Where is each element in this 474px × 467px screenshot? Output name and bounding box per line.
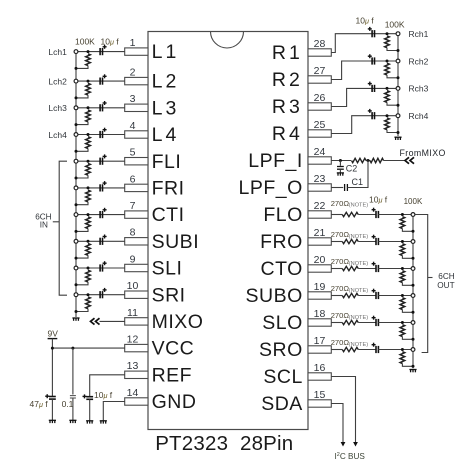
svg-text:C2: C2 — [346, 164, 358, 174]
junction node pin 7 input — [87, 213, 90, 216]
svg-text:L2: L2 — [152, 71, 180, 93]
bracket 6CH IN — [59, 161, 67, 295]
capacitor 10uF (SRO) — [376, 346, 378, 353]
output terminal Rch4 — [396, 114, 400, 118]
svg-text:Rch2: Rch2 — [409, 56, 429, 66]
pin 17 (SRO) — [308, 346, 331, 353]
svg-text:270Ω: 270Ω — [331, 284, 350, 293]
wire resistor to bus (pin 9) — [76, 282, 88, 285]
wire resistor to bus (pin 2) — [76, 95, 88, 98]
wire C1 to LPF mid node — [347, 161, 368, 188]
output terminal CTO — [411, 267, 415, 271]
svg-text:270Ω: 270Ω — [331, 230, 350, 239]
input terminal Lch4 — [74, 133, 78, 137]
svg-text:LPF_O: LPF_O — [239, 177, 303, 199]
capacitor 10uF (Rch4) — [372, 112, 374, 119]
capacitor 10uF (pin 7 input) — [100, 211, 102, 218]
junction node pin 6 input — [87, 186, 90, 189]
resistor 270ohm (FRO) — [342, 239, 358, 243]
pin 19 (SUBO) — [308, 292, 331, 299]
svg-text:10: 10 — [127, 280, 139, 292]
junction node pin 1 input — [87, 50, 90, 53]
output terminal Rch2 — [396, 59, 400, 63]
wire pin 19 (SUBO) — [331, 295, 342, 297]
junction node pin 4 input — [87, 133, 90, 136]
ground (6CH OUT bus) — [409, 370, 416, 373]
resistor 100K (pin 1 input) — [86, 54, 91, 66]
svg-text:10μ f: 10μ f — [94, 390, 113, 400]
resistor 100K (pin 5 input) — [86, 163, 91, 175]
svg-text:3: 3 — [130, 93, 136, 105]
wire resistor to bus (Rch4) — [387, 130, 398, 133]
pin 2 (L2) — [125, 77, 148, 84]
capacitor 10uF (pin 6 input) — [100, 184, 102, 191]
input terminal (pin 9) — [74, 266, 78, 270]
wire LPF mid — [366, 160, 370, 162]
wire MIXO — [100, 320, 125, 322]
svg-text:0.1: 0.1 — [62, 399, 74, 409]
resistor 100K (SUBO) — [400, 298, 405, 310]
capacitor 10uF (pin 4 input) — [100, 131, 102, 138]
wire resistor to bus (SRO) — [402, 364, 413, 367]
svg-text:15: 15 — [314, 389, 326, 401]
junction bus (Rch4) — [397, 131, 400, 134]
wire GND pin to ground — [103, 402, 125, 421]
svg-text:24: 24 — [314, 146, 326, 158]
wire resistor to bus (pin 6) — [76, 202, 88, 205]
left input ground bus — [75, 52, 77, 317]
wire FLO cap to terminal — [378, 214, 413, 216]
junction LPF mid node — [367, 159, 370, 162]
wire resistor to bus (SLO) — [402, 337, 413, 340]
svg-text:(NOTE): (NOTE) — [349, 234, 368, 240]
ground (47uF) — [49, 420, 56, 423]
svg-text:IN: IN — [40, 220, 48, 229]
junction SRO — [401, 348, 404, 351]
pin 26 (R3) — [308, 103, 331, 110]
capacitor 0.1 — [70, 396, 76, 398]
resistor 100K (pin 4 input) — [86, 137, 91, 149]
wire 10uF to ground — [89, 400, 91, 421]
input terminal Lch3 — [74, 106, 78, 110]
junction CTO — [401, 267, 404, 270]
pin 20 (CTO) — [308, 265, 331, 272]
capacitor 10uF (Rch3) — [372, 85, 374, 92]
capacitor 10uF (pin 3 input) — [100, 104, 102, 111]
ground (GND pin) — [100, 421, 107, 424]
junction bus (Rch1) — [397, 49, 400, 52]
svg-text:C1: C1 — [352, 177, 364, 187]
wire input row pin 9 — [76, 267, 125, 269]
pin 4 (L4) — [125, 131, 148, 138]
wire LPF_I — [331, 160, 351, 162]
output terminal FLO — [411, 213, 415, 217]
wire pin 28 to Rch1 — [331, 34, 398, 53]
wire LPF_O to C1 — [331, 187, 343, 189]
resistor 270ohm (SUBO) — [342, 293, 358, 297]
junction 9V-VCC — [51, 347, 54, 350]
svg-text:Rch1: Rch1 — [409, 29, 429, 39]
right 6CH OUT ground bus — [412, 215, 414, 369]
wire pin 17 (SRO) — [331, 349, 342, 351]
arrow SCL down — [353, 442, 358, 447]
svg-text:Rch3: Rch3 — [409, 84, 429, 94]
svg-text:12: 12 — [127, 334, 139, 346]
capacitor 10uF (Rch1) — [372, 30, 374, 37]
junction bus (pin 9) — [75, 283, 78, 286]
wire SCL — [331, 377, 355, 444]
input terminal Lch2 — [74, 79, 78, 83]
input terminal (pin 7) — [74, 213, 78, 217]
ground (C2) — [337, 173, 344, 176]
junction node pin 5 input — [87, 160, 90, 163]
wire input row pin 10 — [76, 294, 125, 296]
capacitor 10uF (pin 10 input) — [100, 291, 102, 298]
wire 47uF to ground — [51, 399, 53, 420]
pin 3 (L3) — [125, 104, 148, 111]
wire resistor to bus (pin 4) — [76, 149, 88, 152]
capacitor 10uF (SLO) — [376, 319, 378, 326]
junction Rch2 — [386, 60, 389, 63]
resistor 100K (SLO) — [400, 325, 405, 337]
wire FRO cap to terminal — [378, 241, 413, 243]
resistor LPF (left) — [352, 158, 366, 162]
resistor 100K (pin 3 input) — [86, 110, 91, 122]
svg-text:MIXO: MIXO — [152, 311, 204, 333]
input terminal (pin 5) — [74, 159, 78, 163]
wire SUBO resistor to cap — [358, 295, 376, 297]
svg-text:26: 26 — [314, 92, 326, 104]
svg-text:FLO: FLO — [263, 204, 302, 226]
svg-text:SUBO: SUBO — [246, 285, 303, 307]
svg-text:(NOTE): (NOTE) — [349, 342, 368, 348]
pin 28 (R1) — [308, 49, 331, 56]
pin 6 (FRI) — [125, 184, 148, 191]
resistor 100K (CTO) — [400, 271, 405, 283]
resistor 100K (Rch4) — [385, 118, 390, 130]
pin 21 (FRO) — [308, 238, 331, 245]
svg-text:18: 18 — [314, 308, 326, 320]
junction Rch3 — [386, 87, 389, 90]
IC U1 PT2323 body — [148, 32, 308, 430]
capacitor 10uF (FLO) — [376, 211, 378, 218]
svg-text:FromMIXO: FromMIXO — [400, 148, 446, 158]
wire CTO resistor to cap — [358, 268, 376, 270]
resistor 100K (pin 6 input) — [86, 190, 91, 202]
junction bus (pin 5) — [75, 177, 78, 180]
wire pin 18 (SLO) — [331, 322, 342, 324]
ground (REF cap) — [86, 421, 93, 424]
svg-text:SCL: SCL — [263, 366, 302, 388]
wire input row pin 4 — [76, 134, 125, 136]
svg-text:(NOTE): (NOTE) — [349, 288, 368, 294]
wire SLO cap to terminal — [378, 322, 413, 324]
capacitor 10uF (FRO) — [376, 238, 378, 245]
wire input row pin 8 — [76, 240, 125, 242]
svg-text:100K: 100K — [404, 197, 423, 206]
svg-text:Lch4: Lch4 — [48, 130, 67, 140]
resistor 100K (pin 2 input) — [86, 83, 91, 95]
junction LPF_I / C2 — [339, 159, 342, 162]
pin 18 (SLO) — [308, 319, 331, 326]
resistor 270ohm (FLO) — [342, 212, 358, 216]
pin 11 (MIXO) — [125, 318, 148, 325]
capacitor 10uF (pin 8 input) — [100, 238, 102, 245]
svg-text:9V: 9V — [48, 328, 59, 338]
junction bus (SUBO) — [412, 311, 415, 314]
capacitor C1 — [345, 184, 348, 191]
ground (Rch bus) — [394, 137, 401, 140]
capacitor 10uF (SUBO) — [376, 292, 378, 299]
wire SUBO cap to terminal — [378, 295, 413, 297]
svg-text:SLI: SLI — [152, 258, 183, 280]
svg-text:R1: R1 — [272, 42, 303, 64]
svg-text:(NOTE): (NOTE) — [349, 315, 368, 321]
pin 15 (SDA) — [308, 400, 331, 407]
resistor 100K (pin 9 input) — [86, 270, 91, 282]
wire resistor to bus (pin 7) — [76, 229, 88, 232]
pin 7 (CTI) — [125, 211, 148, 218]
svg-text:SRO: SRO — [259, 339, 303, 361]
svg-text:R2: R2 — [272, 69, 303, 91]
svg-text:7: 7 — [130, 200, 136, 212]
svg-text:16: 16 — [314, 362, 326, 374]
wire 0.1 to ground — [72, 398, 74, 420]
wire pin 26 to Rch3 — [331, 88, 398, 106]
wire 9V down / 47uF branch — [51, 339, 53, 397]
wire input row pin 7 — [76, 214, 125, 216]
svg-text:27: 27 — [314, 65, 326, 77]
wire to FromMIXO — [384, 160, 406, 162]
resistor 100K (pin 7 input) — [86, 217, 91, 229]
pin 16 (SCL) — [308, 373, 331, 380]
resistor LPF (right) — [370, 158, 384, 162]
capacitor 10uF (pin 5 input) — [100, 158, 102, 165]
wire resistor to bus (FLO) — [402, 229, 413, 232]
svg-text:(NOTE): (NOTE) — [349, 203, 368, 209]
svg-text:10μ f: 10μ f — [356, 15, 375, 25]
svg-text:19: 19 — [314, 281, 326, 293]
junction bus (FRO) — [412, 257, 415, 260]
pin 24 (LPF_I) — [308, 157, 331, 164]
svg-text:R4: R4 — [272, 123, 303, 145]
input terminal Lch1 — [74, 50, 78, 54]
svg-text:270Ω: 270Ω — [331, 199, 350, 208]
svg-text:10μ f: 10μ f — [101, 37, 120, 47]
wire 0.1 branch — [72, 348, 74, 394]
input terminal (pin 8) — [74, 239, 78, 243]
wire resistor to bus (Rch2) — [387, 75, 398, 78]
resistor 100K (pin 10 input) — [86, 297, 91, 309]
resistor 100K (Rch2) — [385, 63, 390, 75]
junction node pin 3 input — [87, 106, 90, 109]
svg-text:13: 13 — [127, 360, 139, 372]
wire FRO resistor to cap — [358, 241, 376, 243]
svg-text:Lch3: Lch3 — [48, 103, 67, 113]
junction FRO — [401, 240, 404, 243]
pin 23 (LPF_O) — [308, 184, 331, 191]
svg-text:LPF_I: LPF_I — [248, 150, 303, 172]
wire FLO resistor to cap — [358, 214, 376, 216]
junction bus (pin 2) — [75, 96, 78, 99]
svg-text:(NOTE): (NOTE) — [349, 261, 368, 267]
svg-text:CTO: CTO — [260, 258, 302, 280]
junction bus (pin 7) — [75, 230, 78, 233]
wire VCC rail — [52, 347, 124, 349]
svg-text:FLI: FLI — [152, 151, 182, 173]
svg-text:6: 6 — [130, 173, 136, 185]
svg-text:11: 11 — [127, 307, 138, 319]
resistor 100K (Rch3) — [385, 91, 390, 103]
svg-text:L1: L1 — [152, 41, 180, 63]
capacitor 10uF (pin 1 input) — [100, 48, 102, 55]
svg-text:21: 21 — [314, 227, 326, 239]
resistor 100K (FLO) — [400, 217, 405, 229]
pin 25 (R4) — [308, 130, 331, 137]
junction bus (pin 3) — [75, 123, 78, 126]
output terminal Rch3 — [396, 87, 400, 91]
junction Rch1 — [386, 32, 389, 35]
svg-text:47μ f: 47μ f — [30, 399, 49, 409]
pin 10 (SRI) — [125, 291, 148, 298]
wire resistor to bus (CTO) — [402, 283, 413, 286]
ground (0.1) — [69, 420, 76, 423]
junction node pin 9 input — [87, 267, 90, 270]
junction bus (SLO) — [412, 338, 415, 341]
svg-text:L4: L4 — [152, 124, 180, 146]
bracket 6CH OUT — [416, 215, 428, 353]
junction node pin 10 input — [87, 293, 90, 296]
svg-text:270Ω: 270Ω — [331, 311, 350, 320]
resistor 270ohm (CTO) — [342, 266, 358, 270]
wire pin 27 to Rch2 — [331, 61, 398, 80]
capacitor 10uF (Rch2) — [372, 57, 374, 64]
pin 27 (R2) — [308, 76, 331, 83]
arrow SDA down — [341, 442, 346, 447]
pin 13 (REF) — [125, 371, 148, 378]
svg-text:SRI: SRI — [152, 284, 186, 306]
pin 1 (L1) — [125, 48, 148, 55]
wire SLO resistor to cap — [358, 322, 376, 324]
junction FLO — [401, 213, 404, 216]
pin 12 (VCC) — [125, 344, 148, 351]
svg-text:25: 25 — [314, 119, 326, 131]
wire input row pin 1 — [76, 51, 125, 53]
arrow MIXO output << — [91, 318, 100, 324]
IC pin-1 notch — [211, 32, 244, 49]
wire resistor to bus (pin 3) — [76, 122, 88, 125]
resistor 100K (pin 8 input) — [86, 244, 91, 256]
right Rch ground bus — [397, 34, 399, 136]
wire pin 22 (FLO) — [331, 214, 342, 216]
svg-text:17: 17 — [314, 335, 326, 347]
wire resistor to bus (Rch1) — [387, 48, 398, 51]
capacitor 47uF — [49, 397, 56, 400]
output terminal SLO — [411, 321, 415, 325]
svg-text:FRI: FRI — [152, 178, 185, 200]
input terminal (pin 6) — [74, 186, 78, 190]
svg-text:4: 4 — [130, 120, 136, 132]
pin 22 (FLO) — [308, 211, 331, 218]
svg-text:Lch1: Lch1 — [48, 47, 67, 57]
wire pin 25 to Rch4 — [331, 116, 398, 134]
svg-text:2: 2 — [130, 67, 136, 79]
svg-text:FRO: FRO — [260, 231, 303, 253]
pin 14 (GND) — [125, 398, 148, 405]
svg-text:Lch2: Lch2 — [48, 76, 67, 86]
junction bus (CTO) — [412, 284, 415, 287]
svg-text:CTI: CTI — [152, 204, 185, 226]
svg-text:SDA: SDA — [261, 393, 303, 415]
svg-text:8: 8 — [130, 227, 136, 239]
output terminal SRO — [411, 348, 415, 352]
wire resistor to bus (pin 5) — [76, 175, 88, 178]
junction bus (pin 8) — [75, 257, 78, 260]
capacitor C2 — [339, 161, 341, 166]
svg-text:I2C BUS: I2C BUS — [335, 452, 366, 461]
ground — [72, 318, 79, 321]
pin 8 (SUBI) — [125, 238, 148, 245]
resistor 100K (SRO) — [400, 352, 405, 364]
capacitor 10uF (pin 9 input) — [100, 264, 102, 271]
svg-text:VCC: VCC — [152, 338, 195, 360]
output terminal FRO — [411, 240, 415, 244]
wire resistor to bus (SUBO) — [402, 310, 413, 313]
svg-text:5: 5 — [130, 147, 136, 159]
wire CTO cap to terminal — [378, 268, 413, 270]
output terminal Rch1 — [396, 32, 400, 36]
resistor 270ohm (SRO) — [342, 347, 358, 351]
junction SLO — [401, 321, 404, 324]
junction bus (pin 1) — [75, 67, 78, 70]
junction bus (pin 4) — [75, 150, 78, 153]
junction node pin 2 input — [87, 80, 90, 83]
wire SDA — [331, 404, 343, 444]
pin 5 (FLI) — [125, 158, 148, 165]
wire REF to 10uF — [90, 375, 125, 397]
svg-text:100K: 100K — [75, 37, 95, 47]
wire resistor to bus (FRO) — [402, 256, 413, 259]
input terminal (pin 10) — [74, 293, 78, 297]
resistor 100K (Rch1) — [385, 36, 390, 48]
capacitor 10uF (pin 2 input) — [100, 78, 102, 85]
svg-text:SUBI: SUBI — [152, 231, 200, 253]
junction Rch4 — [386, 114, 389, 117]
junction bus (pin 6) — [75, 203, 78, 206]
svg-text:1: 1 — [130, 37, 136, 49]
junction bus (Rch2) — [397, 76, 400, 79]
svg-text:REF: REF — [152, 364, 193, 386]
svg-text:23: 23 — [314, 173, 326, 185]
svg-text:9: 9 — [130, 253, 136, 265]
wire pin 21 (FRO) — [331, 241, 342, 243]
svg-text:22: 22 — [314, 200, 326, 212]
wire resistor to bus (pin 1) — [76, 66, 88, 69]
capacitor 10uF (CTO) — [376, 265, 378, 272]
svg-text:OUT: OUT — [437, 281, 454, 290]
wire pin 20 (CTO) — [331, 268, 342, 270]
svg-text:Rch4: Rch4 — [409, 111, 429, 121]
svg-text:10μ f: 10μ f — [369, 195, 388, 205]
junction VCC-0.1 — [71, 347, 74, 350]
wire input row pin 6 — [76, 187, 125, 189]
wire input row pin 3 — [76, 107, 125, 109]
arrow FromMIXO << — [405, 157, 414, 163]
svg-text:20: 20 — [314, 254, 326, 266]
wire resistor to bus (pin 10) — [76, 309, 88, 312]
junction node pin 8 input — [87, 240, 90, 243]
svg-text:R3: R3 — [272, 96, 303, 118]
